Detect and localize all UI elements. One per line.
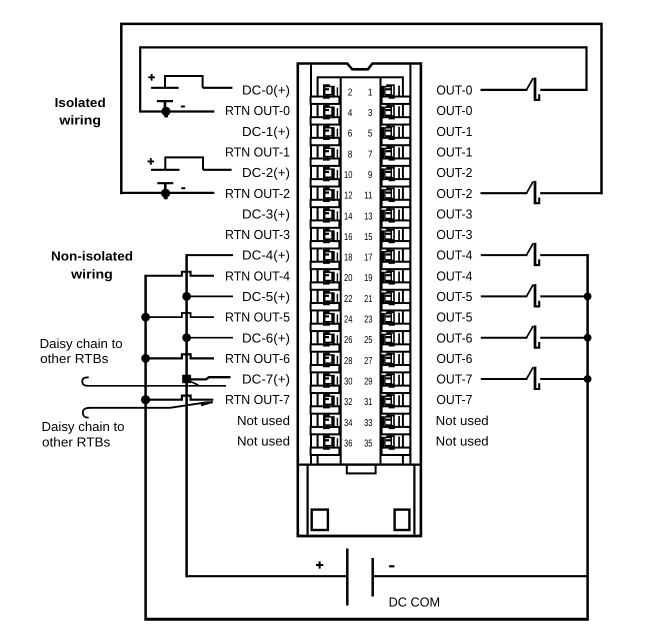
terminal bar right gap5: [382, 179, 411, 186]
terminal bar right gap15: [382, 386, 411, 393]
terminal bar left gap3: [311, 138, 340, 145]
fork tick RTN OUT-7: [201, 402, 212, 405]
svg-text:9: 9: [368, 170, 373, 181]
svg-text:Not used: Not used: [436, 434, 489, 449]
power supply PS1 - terminal: [157, 100, 173, 102]
wire OUT-6: [481, 337, 528, 339]
RTB number strip left boundary: [340, 77, 342, 464]
svg-text:Non-isolated: Non-isolated: [51, 248, 133, 263]
terminal screw left row11 (pin 22): [323, 291, 338, 305]
wire battery + side: [187, 575, 347, 577]
power supply PS2 - terminal: [157, 182, 173, 184]
wire outer isolated loop (left border, top border, right border): [121, 24, 601, 194]
terminal screw right row6 (pin 11): [381, 188, 400, 202]
terminal screw right row11 (pin 21): [381, 291, 400, 305]
svg-text:13: 13: [364, 211, 373, 222]
svg-text:OUT-6: OUT-6: [436, 351, 472, 366]
wire OUT-6 to bus C: [540, 337, 589, 339]
svg-text:26: 26: [344, 335, 353, 346]
wire OUT-2 to outer loop: [481, 192, 528, 194]
svg-text:16: 16: [344, 232, 353, 243]
svg-text:DC-0(+): DC-0(+): [242, 83, 290, 98]
RTB inner wall left: [310, 64, 312, 464]
terminal bar right gap6: [382, 200, 411, 207]
svg-text:RTN OUT-4: RTN OUT-4: [225, 268, 290, 283]
terminal screw right row10 (pin 19): [381, 270, 400, 284]
svg-text:23: 23: [364, 315, 373, 326]
terminal bar right gap13: [382, 344, 411, 351]
svg-text:DC COM: DC COM: [389, 594, 441, 609]
battery - plate: [371, 558, 374, 597]
wire OUT-4: [481, 254, 528, 256]
svg-text:5: 5: [368, 129, 373, 140]
terminal bar right gap2: [382, 117, 411, 124]
wire OUT-0 to inner loop bus: [540, 89, 587, 91]
svg-text:2: 2: [348, 87, 353, 98]
load spike OUT-7: [527, 367, 540, 390]
plus label battery: [316, 561, 323, 568]
terminal screw right row2 (pin 3): [381, 105, 400, 119]
RTB lower housing inner wall left: [307, 465, 309, 535]
wire RTN OUT-2: [120, 192, 214, 194]
terminal screw left row13 (pin 26): [323, 332, 338, 346]
terminal screw left row7 (pin 14): [323, 208, 338, 222]
terminal screw right row8 (pin 15): [381, 229, 400, 243]
wire OUT-5 to bus C: [540, 295, 589, 297]
svg-text:wiring: wiring: [58, 113, 101, 128]
terminal bar right gap10: [382, 282, 411, 289]
RTB housing bottom edge: [297, 535, 423, 538]
terminal screw right row3 (pin 5): [381, 126, 400, 140]
terminal screw right row15 (pin 29): [381, 373, 400, 387]
junction RTN OUT-7 on bus A: [141, 395, 150, 404]
svg-text:18: 18: [344, 253, 353, 264]
svg-text:OUT-0: OUT-0: [436, 103, 472, 118]
terminal screw left row10 (pin 20): [323, 270, 338, 284]
svg-text:Isolated: Isolated: [55, 95, 106, 110]
junction OUT-7 on bus C: [584, 375, 592, 383]
svg-text:Not used: Not used: [436, 413, 489, 428]
svg-text:RTN OUT-1: RTN OUT-1: [225, 144, 290, 159]
terminal screw right row4 (pin 7): [381, 146, 400, 160]
wire OUT-4 to bus C: [540, 254, 589, 256]
terminal bar right gap8: [382, 241, 411, 248]
junction OUT-5 on bus C: [584, 293, 592, 301]
terminal bar left gap5: [311, 179, 340, 186]
svg-text:DC-2(+): DC-2(+): [242, 165, 290, 180]
load spike OUT-6: [527, 325, 540, 348]
terminal bar left gap16: [311, 406, 340, 413]
svg-text:19: 19: [364, 273, 373, 284]
svg-text:28: 28: [344, 356, 353, 367]
wire RTN OUT-7 with crossover jog: [146, 396, 214, 400]
svg-text:Daisy chain to: Daisy chain to: [40, 336, 123, 351]
svg-text:OUT-4: OUT-4: [436, 248, 472, 263]
junction PS2-: [161, 189, 170, 198]
svg-text:OUT-7: OUT-7: [436, 372, 472, 387]
svg-text:DC-1(+): DC-1(+): [242, 124, 290, 139]
svg-text:22: 22: [344, 294, 353, 305]
power supply PS1 + terminal: [151, 87, 179, 89]
svg-text:OUT-5: OUT-5: [436, 289, 472, 304]
svg-text:21: 21: [364, 294, 373, 305]
svg-text:31: 31: [364, 397, 373, 408]
wire DC-5(+): [187, 295, 233, 297]
wire DC-2(+): [203, 169, 232, 171]
terminal screw right row16 (pin 31): [381, 394, 400, 408]
terminal screw left row8 (pin 16): [323, 229, 338, 243]
bus B (DC+ bus x=186.6): [185, 254, 188, 577]
terminal bar right gap9: [382, 262, 411, 269]
terminal bar right gap14: [382, 365, 411, 372]
svg-text:RTN OUT-2: RTN OUT-2: [225, 186, 290, 201]
terminal bar left gap2: [311, 117, 340, 124]
terminal bar right gap4: [382, 158, 411, 165]
terminal screw right row18 (pin 35): [381, 435, 400, 449]
svg-text:Daisy chain to: Daisy chain to: [42, 419, 125, 434]
svg-text:DC-3(+): DC-3(+): [242, 206, 290, 221]
svg-text:other RTBs: other RTBs: [40, 351, 109, 366]
wire DC-0(+): [203, 87, 233, 89]
terminal screw left row16 (pin 32): [323, 394, 338, 408]
junction PS1-: [161, 107, 170, 116]
svg-text:DC-5(+): DC-5(+): [242, 289, 290, 304]
terminal bar left gap10: [311, 282, 340, 289]
terminal screw left row4 (pin 8): [323, 146, 338, 160]
wire RTN OUT-0: [139, 110, 214, 112]
terminal bar left gap13: [311, 344, 340, 351]
terminal bar left gap15: [311, 386, 340, 393]
svg-text:RTN OUT-5: RTN OUT-5: [225, 310, 290, 325]
svg-text:RTN OUT-0: RTN OUT-0: [225, 103, 290, 118]
junction OUT-6 on bus C: [584, 334, 592, 342]
svg-text:15: 15: [364, 232, 373, 243]
wire OUT-7: [481, 378, 528, 380]
bus A (RTN bus x=145.6): [144, 275, 147, 621]
svg-text:1: 1: [368, 87, 373, 98]
junction RTN OUT-6 on bus A: [141, 354, 150, 363]
svg-text:DC-6(+): DC-6(+): [242, 330, 290, 345]
terminal bar left gap1: [311, 97, 340, 104]
svg-text:Not used: Not used: [237, 413, 290, 428]
terminal screw right row14 (pin 27): [381, 353, 400, 367]
wire RTN OUT-5 with crossover jog: [146, 313, 214, 317]
junction DC-7 on bus B (square): [182, 375, 191, 384]
svg-text:6: 6: [348, 129, 353, 140]
svg-text:other RTBs: other RTBs: [42, 434, 111, 449]
svg-text:14: 14: [344, 211, 353, 222]
battery + plate: [346, 549, 349, 606]
svg-text:OUT-5: OUT-5: [436, 310, 472, 325]
wire OUT-0 to inner loop: [481, 89, 528, 91]
minus label PS1: [181, 106, 185, 108]
terminal bar left gap12: [311, 324, 340, 331]
svg-text:OUT-3: OUT-3: [436, 206, 472, 221]
terminal screw left row17 (pin 34): [323, 415, 338, 429]
RTB number strip right boundary: [380, 77, 382, 464]
terminal screw right row12 (pin 23): [381, 311, 400, 325]
terminal bar right gap18: [382, 448, 411, 455]
daisy-chain wire 2 (hook + wire under RTN OUT-7): [83, 408, 90, 418]
terminal screw left row9 (pin 18): [323, 250, 338, 264]
wire RTN OUT-4 with crossover jog: [146, 272, 214, 276]
terminal bar left gap18: [311, 448, 340, 455]
junction DC-6 on bus B: [182, 333, 191, 342]
terminal bar left gap9: [311, 262, 340, 269]
svg-text:OUT-3: OUT-3: [436, 227, 472, 242]
svg-text:OUT-2: OUT-2: [436, 186, 472, 201]
svg-text:20: 20: [344, 273, 353, 284]
terminal bar left gap11: [311, 303, 340, 310]
load spike OUT-5: [527, 284, 540, 307]
svg-text:24: 24: [344, 315, 353, 326]
wire DC-6(+): [187, 337, 233, 339]
bus C (right return bus x=587.6): [586, 254, 589, 620]
RTB terminal strip outline: [318, 77, 403, 464]
terminal bar right gap1: [382, 97, 411, 104]
svg-text:RTN OUT-6: RTN OUT-6: [225, 351, 290, 366]
terminal screw left row3 (pin 6): [323, 126, 338, 140]
RTB inner wall right: [409, 64, 411, 464]
load spike OUT-2: [527, 181, 540, 204]
svg-text:DC-4(+): DC-4(+): [242, 248, 290, 263]
svg-text:DC-7(+): DC-7(+): [242, 372, 290, 387]
svg-text:OUT-6: OUT-6: [436, 330, 472, 345]
junction DC-5 on bus B: [182, 292, 191, 301]
terminal screw right row7 (pin 13): [381, 208, 400, 222]
terminal screw right row13 (pin 25): [381, 332, 400, 346]
svg-text:32: 32: [344, 397, 353, 408]
wire battery - side to bus C: [374, 575, 589, 577]
terminal bar right gap7: [382, 220, 411, 227]
junction RTN OUT-5 on bus A: [141, 313, 150, 322]
terminal screw right row1 (pin 1): [381, 84, 400, 98]
terminal bar right gap11: [382, 303, 411, 310]
terminal bar left gap17: [311, 427, 340, 434]
svg-text:30: 30: [344, 377, 353, 388]
terminal screw right row9 (pin 17): [381, 250, 400, 264]
terminal screw left row15 (pin 30): [323, 373, 338, 387]
svg-text:25: 25: [364, 335, 373, 346]
svg-text:27: 27: [364, 356, 373, 367]
terminal screw left row18 (pin 36): [323, 435, 338, 449]
svg-text:11: 11: [364, 191, 373, 202]
RTB bottom left square: [312, 510, 328, 530]
terminal bar right gap3: [382, 138, 411, 145]
wire DC-4(+): [187, 254, 233, 256]
svg-text:Not used: Not used: [237, 434, 290, 449]
svg-text:RTN OUT-7: RTN OUT-7: [225, 392, 290, 407]
RTB housing outline with top notch: [298, 64, 421, 536]
svg-text:12: 12: [344, 191, 353, 202]
wire OUT-5: [481, 295, 528, 297]
terminal screw left row2 (pin 4): [323, 105, 338, 119]
svg-text:29: 29: [364, 377, 373, 388]
RTB bottom tab slot: [347, 465, 376, 474]
terminal screw right row17 (pin 33): [381, 415, 400, 429]
svg-text:OUT-2: OUT-2: [436, 165, 472, 180]
RTB strip bottom full-width edge: [298, 464, 422, 466]
svg-text:OUT-1: OUT-1: [436, 144, 472, 159]
svg-text:36: 36: [344, 438, 353, 449]
svg-text:35: 35: [364, 438, 373, 449]
wire RTN OUT-6 with crossover jog: [146, 354, 214, 358]
terminal bar right gap17: [382, 427, 411, 434]
RTB lower housing inner wall right: [413, 465, 415, 535]
daisy-chain wire 1 (hook + wire under DC-7): [82, 377, 88, 386]
wire DC-7(+) with jog up: [190, 377, 231, 379]
wire inner isolated loop: [140, 47, 586, 112]
svg-text:OUT-4: OUT-4: [436, 268, 472, 283]
minus label battery: [389, 565, 394, 567]
svg-text:OUT-7: OUT-7: [436, 392, 472, 407]
terminal screw right row5 (pin 9): [381, 167, 400, 181]
svg-text:17: 17: [364, 253, 373, 264]
RTB bottom right square: [395, 510, 410, 530]
svg-text:3: 3: [368, 108, 373, 119]
terminal screw left row14 (pin 28): [323, 353, 338, 367]
terminal bar left gap6: [311, 200, 340, 207]
terminal bar left gap4: [311, 158, 340, 165]
terminal screw left row6 (pin 12): [323, 188, 338, 202]
svg-text:10: 10: [344, 170, 353, 181]
load spike OUT-4: [527, 243, 540, 266]
svg-text:wiring: wiring: [70, 266, 113, 281]
load spike OUT-0: [527, 78, 540, 101]
svg-text:34: 34: [344, 418, 353, 429]
svg-text:OUT-1: OUT-1: [436, 124, 472, 139]
svg-text:OUT-0: OUT-0: [436, 83, 472, 98]
terminal screw left row1 (pin 2): [323, 84, 338, 98]
wire OUT-7 to bus C: [540, 378, 589, 380]
terminal bar left gap14: [311, 365, 340, 372]
terminal bar right gap12: [382, 324, 411, 331]
svg-text:7: 7: [368, 149, 373, 160]
terminal screw left row5 (pin 10): [323, 167, 338, 181]
terminal bar left gap7: [311, 220, 340, 227]
terminal bar left gap8: [311, 241, 340, 248]
svg-text:RTN OUT-3: RTN OUT-3: [225, 227, 290, 242]
minus label PS2: [181, 187, 185, 189]
svg-text:8: 8: [348, 149, 353, 160]
wire OUT-2 to outer loop bus: [540, 192, 603, 194]
bottom border wire (bus A to bus C): [144, 618, 588, 621]
terminal bar right gap16: [382, 406, 411, 413]
svg-text:33: 33: [364, 418, 373, 429]
svg-text:4: 4: [348, 108, 353, 119]
terminal screw left row12 (pin 24): [323, 311, 338, 325]
power supply PS2 + terminal: [151, 169, 180, 171]
